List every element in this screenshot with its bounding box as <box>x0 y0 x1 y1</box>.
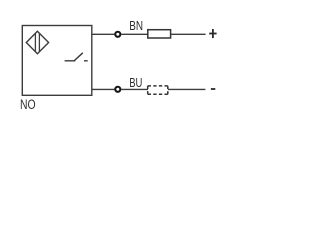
wire: BU terminal to optional load <box>121 88 148 90</box>
wire: box to BN terminal <box>92 33 115 35</box>
plus sign (+) horizontal <box>209 33 216 35</box>
svg-text:NO: NO <box>20 97 36 112</box>
svg-text:BU: BU <box>129 75 142 90</box>
svg-text:BN: BN <box>129 18 143 33</box>
minus sign (-) <box>211 88 215 90</box>
wire: resistor to + supply <box>171 33 206 35</box>
wire: dashed load to - supply <box>168 88 205 90</box>
diamond inner line right <box>38 33 40 51</box>
optional load (dashed rectangle) bottom edge <box>148 93 168 95</box>
load resistor (solid rectangle) <box>148 30 171 38</box>
plus sign (+) vertical <box>212 29 214 38</box>
terminal circle BN <box>115 32 120 37</box>
wire: box to BU terminal <box>92 88 115 90</box>
terminal circle BU <box>115 87 120 92</box>
proximity sensor diamond symbol <box>26 31 48 54</box>
optional load (dashed rectangle) left edge <box>147 86 149 94</box>
NO switch contact: right dash <box>84 60 88 62</box>
diamond inner line left <box>34 33 36 51</box>
NO switch contact: blade <box>74 53 83 61</box>
optional load (dashed rectangle) right edge <box>167 86 169 94</box>
sensor body box <box>22 26 92 96</box>
wire: BN terminal to load resistor <box>121 33 148 35</box>
NO switch contact: left lead <box>65 60 76 62</box>
optional load (dashed rectangle) top edge <box>148 85 168 87</box>
